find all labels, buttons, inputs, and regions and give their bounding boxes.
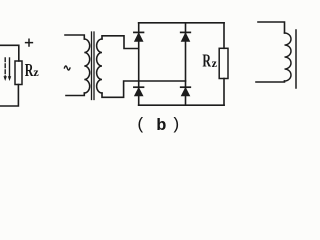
- transformer T1 primary top lead: [65, 35, 84, 39]
- current arrow solid head: [8, 76, 11, 81]
- resistor R2 (Rz load) box: [219, 48, 228, 78]
- current arrow dashed head: [4, 76, 7, 81]
- diode D4 triangle: [182, 88, 190, 96]
- resistor R1 (left load) box: [15, 61, 22, 85]
- plus sign: [26, 39, 33, 46]
- left block top wire: [0, 45, 19, 61]
- diode D2 triangle: [182, 33, 190, 41]
- diode D4 cathode bar: [181, 86, 191, 88]
- svg-text:(: (: [136, 116, 146, 135]
- current arrow dashed: [4, 58, 6, 77]
- transformer T2 bottom lead: [256, 81, 285, 82]
- diode D2 cathode bar: [181, 31, 191, 33]
- bridge left branch wire: [138, 23, 140, 105]
- transformer T2 core line: [295, 30, 297, 88]
- bridge top rail (DC+): [139, 22, 224, 24]
- svg-text:R: R: [202, 51, 211, 71]
- transformer T1 secondary top lead to AC node 1: [102, 36, 139, 49]
- current arrow solid: [9, 58, 11, 77]
- svg-text:z: z: [33, 65, 39, 79]
- transformer T2 winding: [285, 33, 292, 81]
- bridge bottom rail (DC-): [139, 104, 224, 106]
- load branch bottom wire: [223, 79, 225, 106]
- transformer T1 core line right: [93, 32, 95, 100]
- diode D1 triangle: [135, 33, 143, 41]
- AC source tilde: [64, 66, 70, 70]
- svg-text:b: b: [156, 117, 166, 136]
- svg-text:z: z: [212, 56, 218, 70]
- transformer T1 primary winding: [84, 39, 89, 93]
- transformer T1 secondary bottom lead to AC node 2: [102, 81, 186, 97]
- bridge right branch wire: [185, 23, 187, 105]
- diode D1 cathode bar: [134, 31, 144, 33]
- left block bottom wire: [0, 85, 18, 107]
- diode D3 triangle: [135, 88, 143, 96]
- transformer T1 core line left: [91, 32, 93, 100]
- diode D3 cathode bar: [134, 86, 144, 88]
- svg-text:): ): [171, 116, 181, 135]
- transformer T1 primary bottom lead: [66, 93, 84, 96]
- load branch top wire: [223, 23, 225, 49]
- transformer T2 top lead: [258, 22, 285, 33]
- transformer T1 secondary winding: [97, 39, 102, 93]
